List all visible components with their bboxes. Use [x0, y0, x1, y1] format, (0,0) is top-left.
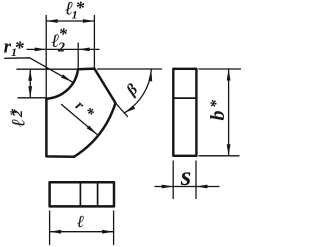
r leader arrow — [87, 125, 97, 134]
svg-text:ℓ: ℓ — [77, 212, 84, 231]
l left arrow — [50, 230, 62, 234]
left dim down arrow — [28, 86, 32, 98]
beta arc — [124, 70, 151, 113]
label l2* left rotated — [8, 109, 30, 128]
s left outside arrow — [162, 185, 174, 189]
l2 right outside arrow tail — [78, 48, 99, 50]
thin lines group — [5, 16, 241, 245]
b bottom arrow — [227, 144, 231, 156]
bottom view rectangle — [50, 182, 114, 206]
side top ext — [199, 68, 241, 70]
left dim up arrow — [28, 69, 32, 81]
l1 left arrow — [46, 19, 58, 23]
ext line l1 left — [45, 16, 47, 98]
s ext right — [195, 161, 197, 199]
s dim line left tail — [155, 186, 173, 188]
l1 right arrow — [83, 19, 95, 23]
svg-text:b: b — [207, 111, 229, 121]
svg-text:*: * — [75, 0, 85, 18]
l2 left outside arrow — [35, 48, 47, 52]
beta arc bottom arrow — [124, 105, 135, 112]
r1 leader arrow — [61, 74, 72, 81]
dim line l1 — [46, 20, 94, 22]
l ext right — [113, 211, 115, 245]
b top arrow — [227, 69, 231, 81]
svg-text:*: * — [14, 38, 24, 59]
bottom view divider 1 — [79, 182, 81, 206]
r1 leader — [5, 58, 72, 82]
side view rectangle — [173, 69, 196, 156]
l2 right outside arrow — [78, 48, 90, 52]
top-left horizontal ext — [17, 68, 78, 70]
label b* rotated — [207, 99, 229, 121]
bottom view divider 2 — [97, 182, 99, 206]
left vertical dim line — [29, 69, 31, 98]
s dim line right tail — [196, 186, 219, 188]
svg-text:s: s — [180, 161, 192, 191]
ext line l1 right — [93, 16, 95, 69]
svg-text:*: * — [8, 109, 24, 117]
dim line l2 — [46, 48, 78, 50]
svg-text:ℓ: ℓ — [9, 119, 30, 127]
side bottom ext — [199, 155, 239, 157]
s dim line middle — [173, 186, 196, 188]
l right arrow — [102, 230, 114, 234]
l dim line — [50, 231, 114, 233]
b dim line — [228, 69, 230, 156]
s right outside arrow — [196, 185, 208, 189]
arrowheads — [28, 19, 230, 234]
label r* — [72, 98, 98, 123]
lower horizontal ext — [18, 97, 46, 99]
l2 left outside arrow tail — [27, 48, 46, 50]
beta arc top arrow — [148, 70, 152, 82]
main view outline — [46, 69, 115, 157]
svg-text:*: * — [59, 25, 68, 44]
r leader — [62, 105, 97, 135]
s ext left — [172, 161, 174, 199]
top edge right ext — [98, 68, 162, 70]
side view divider — [173, 97, 196, 99]
svg-text:*: * — [208, 99, 225, 108]
l ext left — [49, 211, 51, 245]
ext line l2 right — [77, 43, 79, 69]
slant ext — [116, 103, 128, 117]
